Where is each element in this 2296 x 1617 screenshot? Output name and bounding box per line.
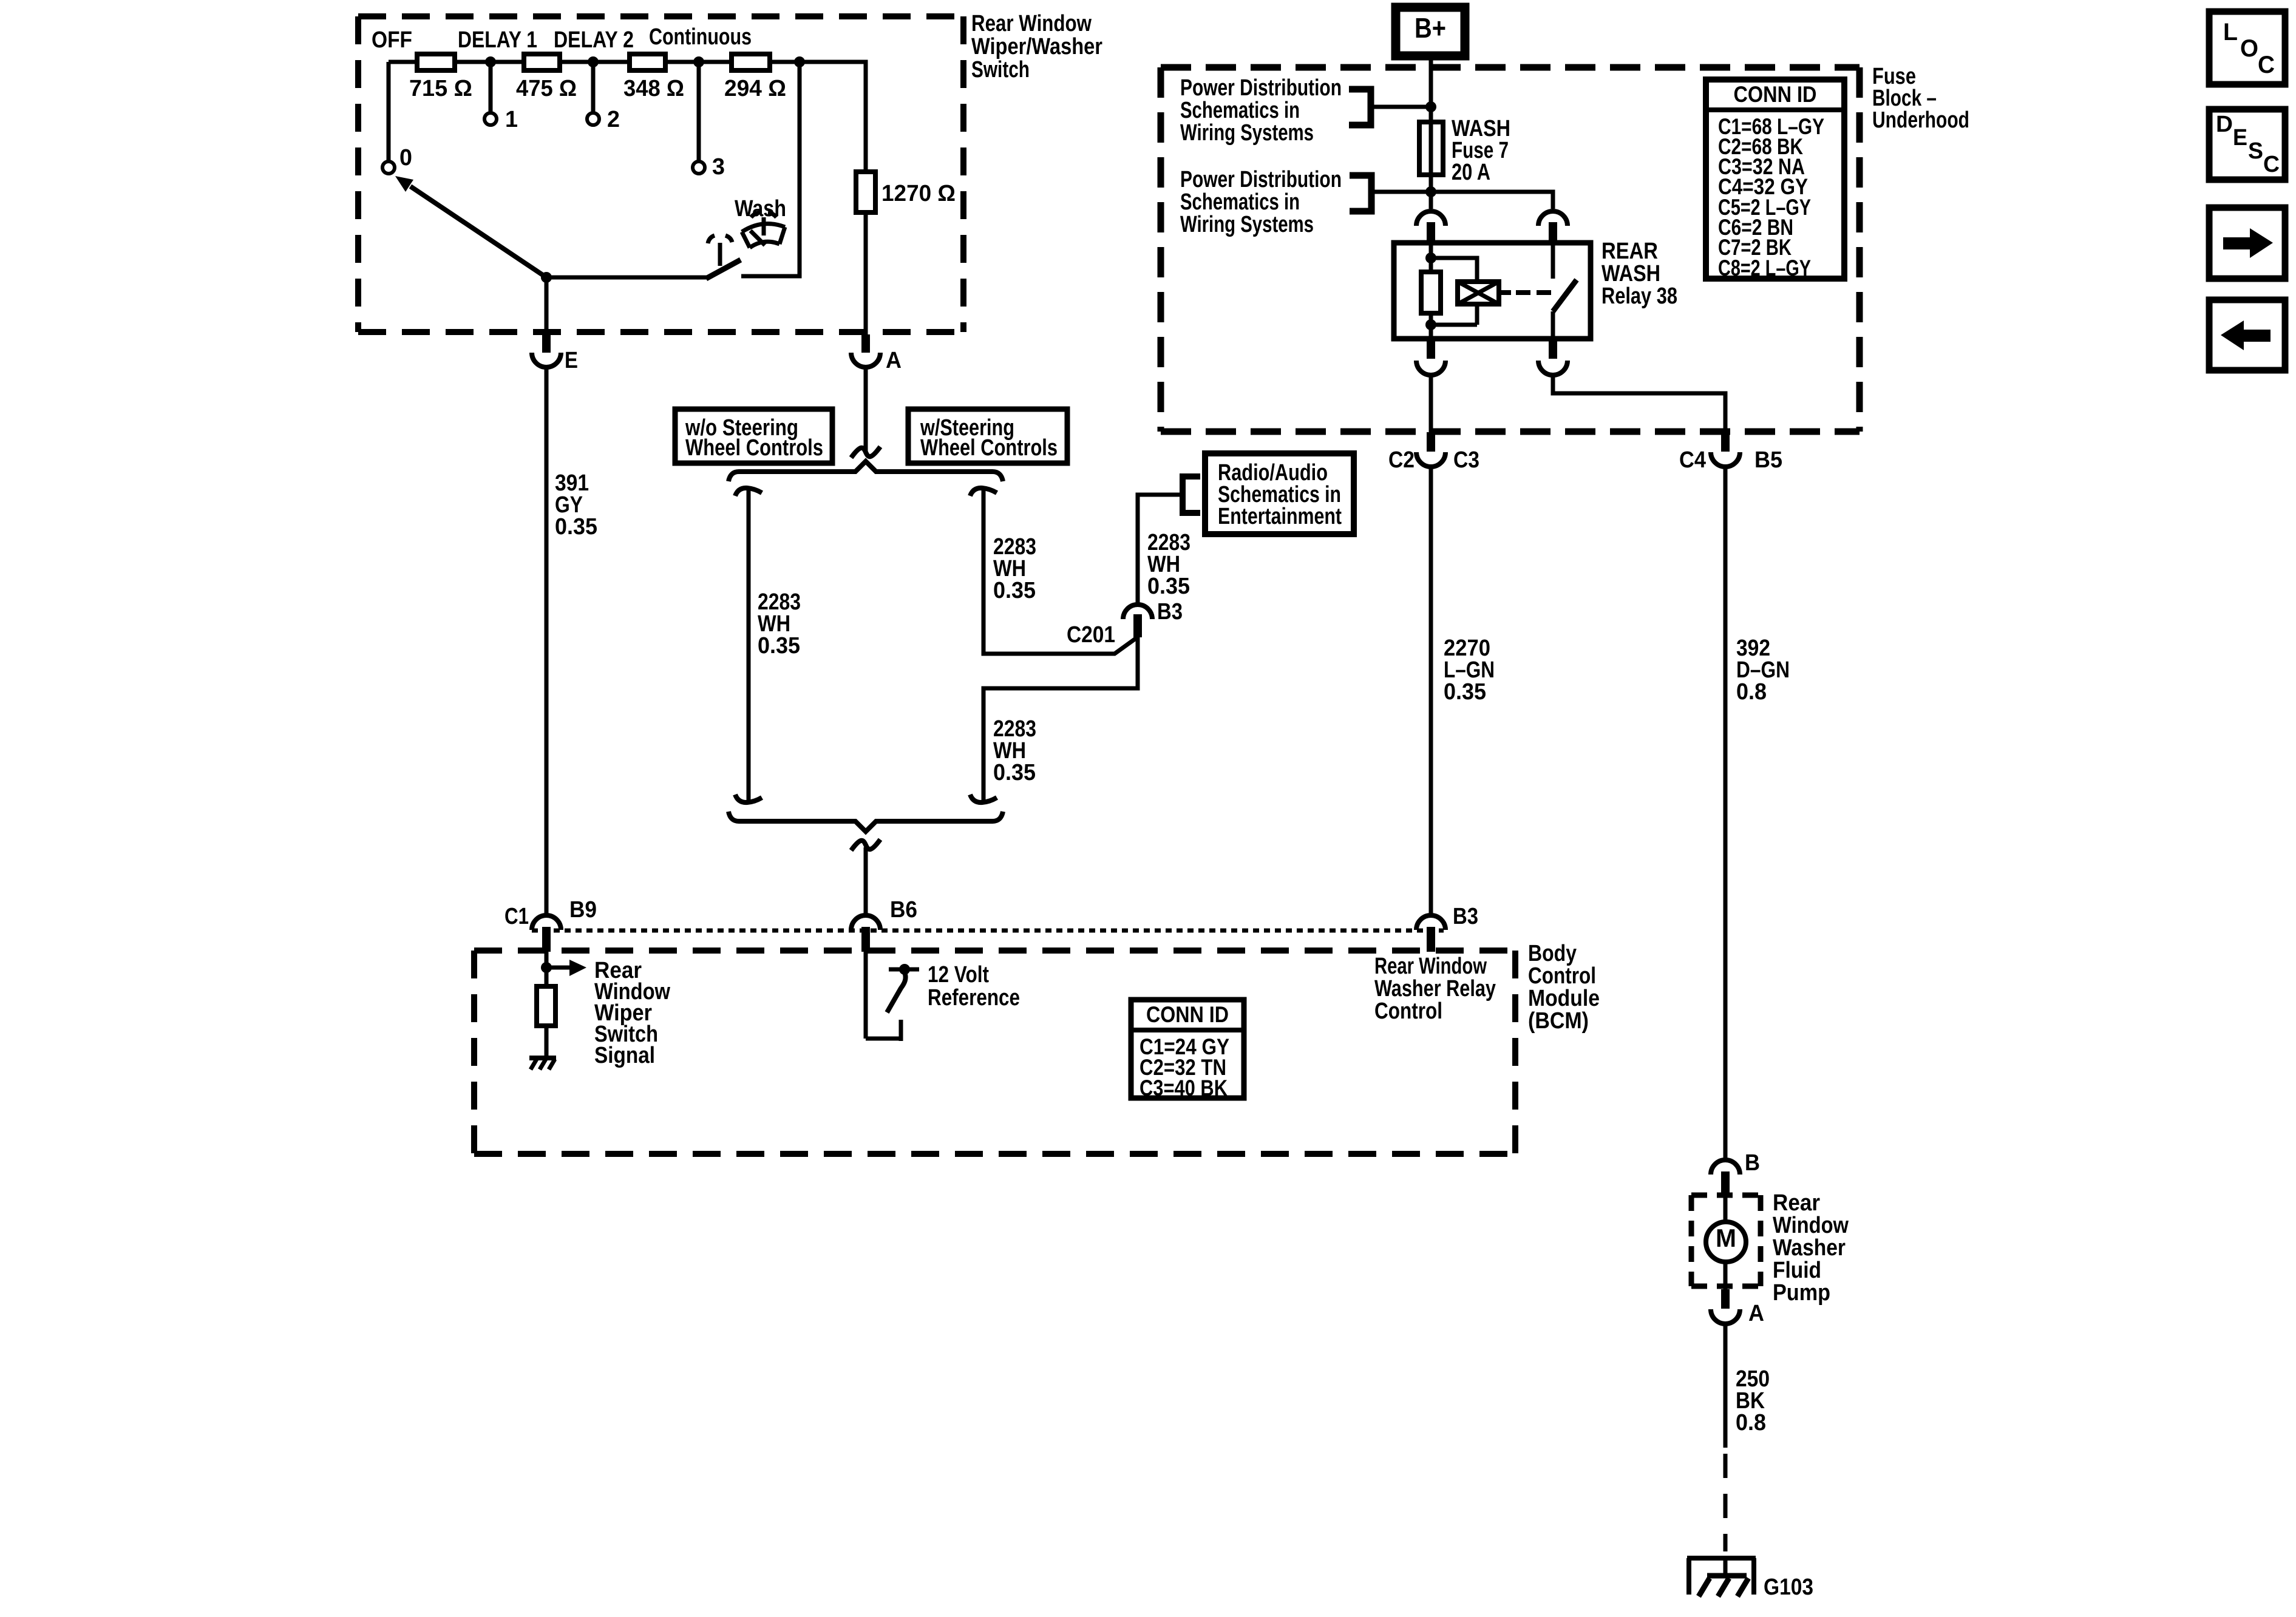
svg-text:Wash: Wash xyxy=(735,196,786,222)
wash switch blade (open) xyxy=(706,260,741,279)
svg-text:E: E xyxy=(565,348,578,373)
12 volt reference switch xyxy=(866,952,919,1041)
resistor 715 ohm xyxy=(409,54,472,101)
Rear Window Wiper/Washer Switch dashed box xyxy=(358,16,963,332)
svg-text:Wheel Controls: Wheel Controls xyxy=(920,435,1058,461)
label 2283 WH 0.35 right upper xyxy=(993,534,1036,603)
svg-text:Module: Module xyxy=(1528,986,1600,1011)
svg-text:Wheel Controls: Wheel Controls xyxy=(685,435,823,461)
wire from B3 down-left xyxy=(970,637,1138,802)
signal ground xyxy=(529,1058,556,1070)
svg-text:(BCM): (BCM) xyxy=(1528,1008,1589,1034)
svg-text:REAR: REAR xyxy=(1601,239,1658,264)
svg-text:B3: B3 xyxy=(1453,904,1478,929)
svg-text:B3: B3 xyxy=(1157,599,1183,625)
WASH Fuse 7 20A xyxy=(1419,116,1510,185)
svg-text:1270 Ω: 1270 Ω xyxy=(881,181,956,206)
svg-text:WASH: WASH xyxy=(1601,261,1660,286)
CONN ID table BCM xyxy=(1131,1000,1244,1100)
LOC icon xyxy=(2209,12,2285,84)
svg-text:B+: B+ xyxy=(1415,12,1446,44)
svg-text:C: C xyxy=(2258,52,2275,78)
Fuse Block label xyxy=(1872,64,1969,133)
relay coil resistor branch xyxy=(1421,243,1441,339)
svg-text:C3: C3 xyxy=(1453,447,1479,473)
brace bottom xyxy=(729,812,1003,832)
svg-text:C1: C1 xyxy=(504,904,529,929)
rear window wiper switch signal circuit xyxy=(537,952,586,1056)
svg-text:C8=2 L–GY: C8=2 L–GY xyxy=(1718,256,1811,280)
svg-text:0.35: 0.35 xyxy=(555,514,597,540)
switch terminal 3 xyxy=(693,154,725,180)
svg-text:DELAY 2: DELAY 2 xyxy=(554,27,634,53)
svg-text:Wiper/Washer: Wiper/Washer xyxy=(971,34,1102,59)
wire from A down xyxy=(864,369,868,452)
svg-text:Continuous: Continuous xyxy=(649,24,752,50)
connector E at switch xyxy=(532,334,578,373)
svg-text:B: B xyxy=(1745,1150,1760,1176)
svg-text:L: L xyxy=(2223,19,2238,46)
w/o Steering Wheel Controls box xyxy=(675,409,832,463)
wire to B6 xyxy=(864,847,868,914)
connector A pump xyxy=(1711,1289,1764,1326)
w/o branch wire 2283 WH xyxy=(735,488,762,802)
rotary switch arm with arrow xyxy=(395,176,546,277)
svg-text:CONN ID: CONN ID xyxy=(1146,1002,1229,1027)
Fuse Block Underhood dashed box xyxy=(1161,67,1860,432)
BCM connector dotted line xyxy=(532,929,1444,933)
switch terminal 1 xyxy=(484,107,518,132)
svg-text:Washer: Washer xyxy=(1773,1235,1846,1261)
svg-text:Signal: Signal xyxy=(594,1043,655,1068)
wire resistor ladder xyxy=(389,62,866,334)
wash wiper icon xyxy=(742,212,785,248)
wire 250 BK xyxy=(1724,1326,1728,1551)
svg-text:B9: B9 xyxy=(569,897,597,923)
connector C1/B9 xyxy=(504,897,597,952)
svg-text:Reference: Reference xyxy=(928,985,1020,1011)
svg-text:475 Ω: 475 Ω xyxy=(516,76,577,101)
ground G103 xyxy=(1687,1558,1813,1600)
wiper common wire xyxy=(541,272,707,334)
svg-text:Entertainment: Entertainment xyxy=(1218,504,1342,529)
svg-text:Wiring Systems: Wiring Systems xyxy=(1180,120,1314,146)
relay linkage dashes xyxy=(1499,290,1554,295)
REAR WASH Relay 38 box xyxy=(1394,243,1591,339)
position labels xyxy=(372,24,752,53)
svg-text:CONN ID: CONN ID xyxy=(1734,82,1817,107)
wire 2270 L-GN xyxy=(1429,469,1433,914)
svg-text:C3=40 BK: C3=40 BK xyxy=(1140,1076,1228,1100)
power distribution bracket 1 xyxy=(1349,89,1436,125)
radio/audio bracket xyxy=(1183,476,1200,513)
break squiggle top xyxy=(851,447,880,458)
svg-text:Underhood: Underhood xyxy=(1872,107,1969,133)
connector C201 B3 xyxy=(1067,599,1183,648)
svg-text:2: 2 xyxy=(607,107,620,132)
svg-text:M: M xyxy=(1716,1224,1736,1252)
power distribution bracket 2 xyxy=(1350,175,1436,211)
CONN ID table fuse block xyxy=(1706,80,1844,280)
svg-text:Rear: Rear xyxy=(1773,1190,1820,1216)
wire to relay switch side xyxy=(1431,192,1553,209)
svg-text:DELAY 1: DELAY 1 xyxy=(458,27,537,53)
wire fuse to relay xyxy=(1429,175,1433,209)
svg-text:Body: Body xyxy=(1528,941,1577,966)
relay label xyxy=(1601,239,1677,309)
relay output connector right xyxy=(1538,339,1567,375)
svg-text:C4: C4 xyxy=(1679,447,1706,473)
break squiggle bottom xyxy=(851,839,880,850)
svg-text:Relay 38: Relay 38 xyxy=(1601,283,1677,309)
svg-text:0.8: 0.8 xyxy=(1736,1410,1766,1436)
BCM dashed box xyxy=(474,951,1515,1154)
svg-text:S: S xyxy=(2248,138,2263,164)
svg-text:3: 3 xyxy=(712,154,725,180)
DESC icon xyxy=(2209,109,2285,180)
label 391 GY 0.35 xyxy=(555,470,597,540)
svg-text:C2: C2 xyxy=(1388,447,1415,473)
svg-text:715 Ω: 715 Ω xyxy=(409,76,472,101)
svg-text:0.8: 0.8 xyxy=(1736,679,1767,705)
pump motor M xyxy=(1706,1195,1746,1289)
svg-text:348 Ω: 348 Ω xyxy=(623,76,684,101)
B+ power symbol xyxy=(1396,7,1465,56)
Body Control Module label xyxy=(1528,941,1600,1034)
wire 391 GY left branch xyxy=(545,369,549,914)
previous page arrow icon xyxy=(2209,300,2285,370)
svg-text:Power Distribution: Power Distribution xyxy=(1180,75,1342,101)
ladder junctions xyxy=(485,56,805,67)
svg-text:Schematics in: Schematics in xyxy=(1180,189,1300,215)
wire 392 D-GN xyxy=(1724,469,1728,1158)
svg-text:E: E xyxy=(2233,125,2247,151)
svg-text:Control: Control xyxy=(1374,998,1442,1024)
svg-text:Rear Window: Rear Window xyxy=(971,11,1092,36)
label 2283 WH 0.35 lower xyxy=(993,716,1036,785)
next page arrow icon xyxy=(2209,208,2285,279)
w/Steering Wheel Controls box xyxy=(908,409,1067,463)
relay coil X box xyxy=(1458,282,1499,304)
svg-text:Fluid: Fluid xyxy=(1773,1258,1821,1283)
connector B3 BCM xyxy=(1416,904,1478,952)
svg-text:0.35: 0.35 xyxy=(758,633,800,659)
switch terminal 2 xyxy=(587,107,620,132)
svg-text:G103: G103 xyxy=(1764,1575,1813,1600)
svg-text:Washer Relay: Washer Relay xyxy=(1374,976,1496,1002)
Power Distribution text 1 xyxy=(1180,75,1342,146)
wire B+ to fuse xyxy=(1429,56,1433,122)
relay switch-side connector pair xyxy=(1538,211,1567,244)
svg-text:Wiring Systems: Wiring Systems xyxy=(1180,212,1314,237)
svg-text:Switch: Switch xyxy=(971,57,1030,83)
relay output connector left xyxy=(1416,339,1445,375)
connector C2/C3 xyxy=(1388,432,1479,473)
svg-text:C201: C201 xyxy=(1067,622,1115,648)
wash fixed contact wire to ladder xyxy=(741,62,800,276)
svg-text:A: A xyxy=(1748,1301,1764,1326)
svg-text:294 Ω: 294 Ω xyxy=(724,76,786,101)
wire up to radio bracket xyxy=(1138,495,1183,603)
resistor 348 ohm xyxy=(623,54,684,101)
svg-text:Pump: Pump xyxy=(1773,1280,1830,1306)
svg-text:0: 0 xyxy=(399,145,412,171)
connector B pump xyxy=(1711,1150,1760,1195)
Rear Window Washer Fluid Pump dashed box xyxy=(1691,1195,1761,1286)
relay coil loop xyxy=(1431,258,1477,325)
svg-text:0.35: 0.35 xyxy=(1147,574,1190,599)
svg-text:Rear Window: Rear Window xyxy=(1374,954,1487,979)
connector B6 xyxy=(851,897,917,952)
connector A at switch xyxy=(851,334,902,373)
svg-text:O: O xyxy=(2240,35,2258,62)
label 2283 WH 0.35 at B3 xyxy=(1147,530,1190,599)
switch box title xyxy=(971,11,1102,83)
resistor 1270 ohm xyxy=(856,172,956,212)
Radio/Audio Schematics box xyxy=(1205,453,1354,534)
relay coil-side connector pair xyxy=(1416,211,1445,244)
wire relay to C4 xyxy=(1553,377,1725,432)
Rear Window Wiper Switch Signal label xyxy=(594,958,670,1068)
resistor 294 ohm xyxy=(724,54,786,101)
w/ branch wire upper xyxy=(970,488,1136,654)
wash momentary position mark xyxy=(708,236,732,266)
svg-text:B5: B5 xyxy=(1754,447,1782,473)
Wash label xyxy=(735,196,786,222)
switch terminal 0 xyxy=(382,145,412,174)
svg-text:D: D xyxy=(2216,112,2233,137)
svg-text:0.35: 0.35 xyxy=(993,760,1036,785)
svg-text:12 Volt: 12 Volt xyxy=(928,962,989,988)
svg-text:Schematics in: Schematics in xyxy=(1180,98,1300,123)
svg-text:20 A: 20 A xyxy=(1452,160,1490,185)
Rear Window Washer Relay Control label xyxy=(1374,954,1496,1024)
svg-text:A: A xyxy=(886,348,902,373)
svg-text:OFF: OFF xyxy=(372,27,412,53)
relay switch contacts xyxy=(1553,243,1577,339)
wire relay to C2/C3 xyxy=(1429,377,1433,432)
svg-text:0.35: 0.35 xyxy=(1444,679,1486,705)
svg-text:Control: Control xyxy=(1528,963,1596,989)
12 Volt Reference label xyxy=(928,962,1020,1011)
Power Distribution text 2 xyxy=(1180,167,1342,237)
svg-text:B6: B6 xyxy=(890,897,917,923)
svg-text:Power Distribution: Power Distribution xyxy=(1180,167,1342,192)
svg-text:1: 1 xyxy=(505,107,518,132)
connector C4/B5 xyxy=(1679,432,1782,473)
resistor 475 ohm xyxy=(516,54,577,101)
brace top xyxy=(729,461,1003,481)
label 2283 WH 0.35 left xyxy=(758,589,801,659)
svg-text:Window: Window xyxy=(1773,1213,1849,1238)
svg-text:0.35: 0.35 xyxy=(993,578,1036,603)
pump label xyxy=(1773,1190,1849,1306)
svg-text:C: C xyxy=(2263,152,2280,177)
